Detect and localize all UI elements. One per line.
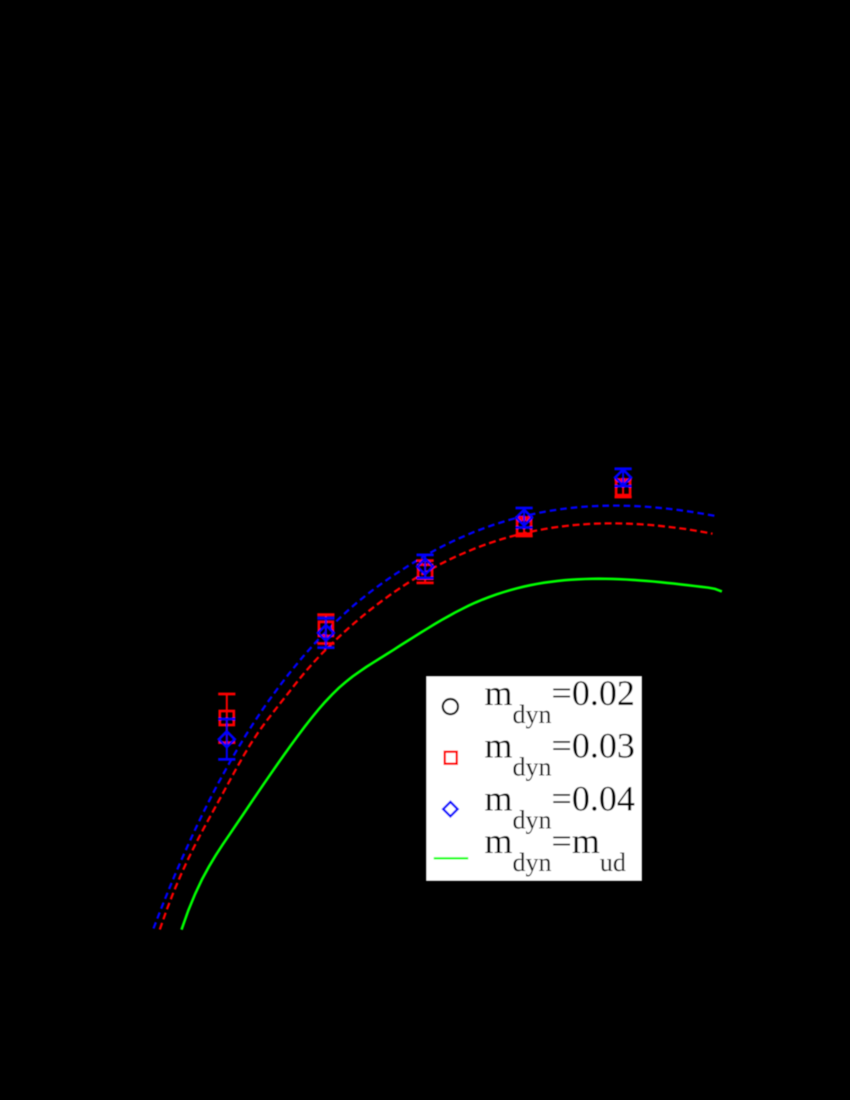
red square marker point 3 (m_dyn=0.03) <box>418 565 432 579</box>
red error bar point 1 (m_dyn=0.03) <box>218 694 235 743</box>
blue diamond marker point 1 (m_dyn=0.04) <box>219 731 235 747</box>
blue dashed fit curve m_dyn=0.04 <box>154 506 716 929</box>
blue diamond marker point 4 (m_dyn=0.04) <box>516 510 532 526</box>
red square marker point 5 (m_dyn=0.03) <box>616 481 630 495</box>
legend box <box>425 675 643 882</box>
legend red square symbol (m_dyn=0.03) <box>445 752 457 764</box>
red error bar point 2 (m_dyn=0.03) <box>317 615 334 644</box>
blue diamond marker point 3 (m_dyn=0.04) <box>417 559 433 575</box>
blue diamond marker point 2 (m_dyn=0.04) <box>318 625 334 641</box>
blue error bar point 4 (m_dyn=0.04) <box>516 508 533 528</box>
green solid fit curve m_dyn=m_ud <box>182 579 722 930</box>
red error bar point 4 (m_dyn=0.03) <box>516 518 533 537</box>
red error bar point 3 (m_dyn=0.03) <box>417 561 434 583</box>
red square marker point 2 (m_dyn=0.03) <box>319 622 333 636</box>
blue diamond marker point 5 (m_dyn=0.04) <box>615 470 631 486</box>
blue error bar point 5 (m_dyn=0.04) <box>615 469 632 486</box>
blue error bar point 1 (m_dyn=0.04) <box>218 719 235 759</box>
legend black circle symbol (m_dyn=0.02) <box>443 699 458 714</box>
blue error bar point 3 (m_dyn=0.04) <box>417 555 434 578</box>
legend green line symbol (m_dyn=m_ud) <box>434 857 468 859</box>
blue error bar point 2 (m_dyn=0.04) <box>317 618 334 647</box>
red square marker point 1 (m_dyn=0.03) <box>220 711 234 725</box>
legend blue diamond symbol (m_dyn=0.04) <box>443 802 457 816</box>
red dashed fit curve m_dyn=0.03 <box>160 523 713 929</box>
red error bar point 5 (m_dyn=0.03) <box>615 480 632 498</box>
red square marker point 4 (m_dyn=0.03) <box>517 520 531 534</box>
